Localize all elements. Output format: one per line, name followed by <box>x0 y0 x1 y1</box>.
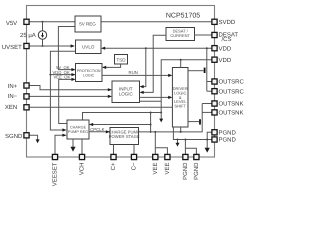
pin OUTSNK 2 <box>212 110 217 115</box>
svg-text:/CS: /CS <box>222 36 232 43</box>
IC outline NCP51705 <box>27 6 215 158</box>
svg-text:PROTECTION: PROTECTION <box>77 69 101 73</box>
pin VDD 1 <box>212 46 217 51</box>
svg-text:VEESET: VEESET <box>52 162 59 186</box>
svg-text:LOGIC: LOGIC <box>83 74 95 78</box>
PGND pins bracket <box>185 148 196 154</box>
pin OUTSNK 1 <box>212 101 217 106</box>
svg-text:OUTSRC: OUTSRC <box>219 88 245 95</box>
svg-text:RUN: RUN <box>129 70 138 75</box>
pin OUTSRC 2 <box>212 89 217 94</box>
pin UVSET <box>24 43 29 48</box>
svg-text:C−: C− <box>131 162 138 170</box>
wire VEESET up to charge pump reg <box>55 135 65 154</box>
svg-text:LOGIC: LOGIC <box>119 91 134 96</box>
transistor Q1 PMOS source follower <box>188 66 207 92</box>
block DESAT / CURRENT <box>166 28 195 41</box>
current source 25uA <box>38 22 46 46</box>
wire VDD rail left to charge pump reg top <box>83 113 162 121</box>
PGND rail down arrow <box>177 140 179 144</box>
pin VCH <box>79 154 84 159</box>
wire OUTSNK pin2 stub <box>202 111 212 113</box>
svg-text:PGND: PGND <box>219 130 237 137</box>
pin IN- <box>24 94 29 99</box>
wire SGND arrow <box>29 135 38 140</box>
pin V5V <box>24 19 29 24</box>
svg-text:25 µA: 25 µA <box>20 32 36 39</box>
wire UVSET to UVLO <box>29 45 74 47</box>
wire OUTSRC pin2 stub <box>207 90 212 92</box>
svg-text:SGND: SGND <box>5 133 23 140</box>
svg-text:VDD: VDD <box>219 57 232 64</box>
wire XEN to driver <box>29 106 172 108</box>
wire branch down to charge pump reg right input and VEE rail <box>150 113 152 132</box>
block DRIVER LOGIC & LEVEL SHIFT <box>172 68 188 128</box>
VDD bus vertical to PMOS <box>206 48 208 65</box>
pin PGND bottom 1 <box>183 154 188 159</box>
svg-text:OUTSNK: OUTSNK <box>219 101 244 108</box>
svg-text:PUMP REG: PUMP REG <box>68 130 88 134</box>
svg-text:OUTSNK: OUTSNK <box>219 110 244 117</box>
svg-text:VCH: VCH <box>79 163 86 176</box>
pin IN+ <box>24 83 29 88</box>
wire VDD into driver top <box>180 60 182 68</box>
block INPUT LOGIC <box>112 81 140 103</box>
wire C+ stub <box>113 145 115 155</box>
node junction current source top <box>42 21 44 23</box>
svg-text:C+: C+ <box>110 162 117 170</box>
svg-text:VDD: VDD <box>219 45 232 52</box>
wire DESAT output down to input logic <box>141 35 166 92</box>
wire VEE rail down to VEE pins bracket <box>154 132 156 155</box>
block CHARGE PUMP POWER STAGE <box>110 128 139 145</box>
svg-text:PGND: PGND <box>193 162 200 180</box>
wire 5V REG to SVDD <box>101 21 212 23</box>
pin VEE 1 <box>153 154 158 159</box>
wire CPCLK charge pump reg to power stage <box>89 131 109 133</box>
svg-text:VEE: VEE <box>164 163 171 175</box>
svg-text:SHIFT: SHIFT <box>174 104 186 109</box>
svg-text:POWER STAGE: POWER STAGE <box>109 134 140 139</box>
svg-text:CPCLK: CPCLK <box>90 127 104 132</box>
block CHARGE PUMP REG <box>67 120 89 139</box>
pin PGND right 2 <box>212 137 217 142</box>
wire W1 UVLO left down to charge pump reg input1 <box>50 51 75 130</box>
wire driver bottom to VEE rail <box>180 127 182 132</box>
svg-text:IN−: IN− <box>8 93 18 100</box>
pin XEN <box>24 105 29 110</box>
arrow to VEE below node <box>160 113 162 120</box>
svg-text:OUTSRC: OUTSRC <box>219 79 245 86</box>
svg-text:UVSET: UVSET <box>2 44 22 51</box>
wire OUTSRC pin1 stub <box>207 81 212 83</box>
pin PGND right 1 <box>212 130 217 135</box>
svg-text:UVLO: UVLO <box>82 44 95 49</box>
wire OUTSNK bus <box>201 104 203 127</box>
VEE pins bracket <box>155 148 167 155</box>
svg-text:TSD: TSD <box>117 57 127 62</box>
svg-text:V5V: V5V <box>6 20 17 27</box>
wire V5V to 5V REG <box>29 21 75 23</box>
node junction current source bottom <box>42 45 44 47</box>
pin SGND <box>24 133 29 138</box>
transistor Q2 NMOS sink <box>188 119 201 124</box>
wire IN+ to input logic <box>29 86 111 90</box>
wire PGND pin1 stub down to solid arrow <box>207 132 212 148</box>
svg-text:PGND: PGND <box>219 137 237 144</box>
wire RUN protection to driver <box>102 74 171 76</box>
wire IN- to input logic <box>29 95 111 97</box>
svg-text:CURRENT: CURRENT <box>170 33 190 38</box>
block PROTECTION LOGIC <box>76 64 103 82</box>
wire VDD pin1 to UVLO <box>103 47 212 49</box>
wire C- stub <box>133 145 135 155</box>
wire TSD to protection logic <box>103 64 120 67</box>
svg-text:XEN: XEN <box>5 104 17 111</box>
svg-text:SVDD: SVDD <box>219 19 236 26</box>
wire W3 VEE_OK down to charge pump reg top input <box>59 79 74 123</box>
wire input logic out1 to driver <box>140 96 171 98</box>
block 5V REG <box>75 16 101 32</box>
svg-text:NCP51705: NCP51705 <box>166 12 200 19</box>
svg-text:VEE_OK: VEE_OK <box>54 75 71 80</box>
pin OUTSRC 1 <box>212 79 217 84</box>
wire DESAT/CS pin <box>194 34 212 36</box>
pin VEESET <box>52 154 57 159</box>
svg-text:IN+: IN+ <box>8 83 18 90</box>
wire input logic out2 to VDD branch node <box>140 100 162 102</box>
svg-text:PGND: PGND <box>182 162 189 180</box>
wire W2 5V REG left down to 5V_OK <box>58 27 75 70</box>
wire PGND rail to driver bottom <box>173 127 212 140</box>
wire VCH pin up to charge pump reg <box>81 139 83 154</box>
charge pump reg down arrow to VEE <box>72 139 74 147</box>
wire VDD pin2 rail <box>161 60 212 113</box>
pin PGND bottom 2 <box>194 154 199 159</box>
block TSD <box>115 55 128 65</box>
pin VEE 2 <box>165 154 170 159</box>
pin DESAT/CS <box>212 32 217 37</box>
wire OUTSNK pin1 stub <box>202 103 212 105</box>
svg-text:VEE: VEE <box>152 163 159 175</box>
wire PGND rail to bottom PGND pins <box>184 140 186 155</box>
pin C+ <box>111 154 116 159</box>
pin C- <box>131 154 136 159</box>
svg-text:5V REG: 5V REG <box>79 21 96 26</box>
wire VDD_OK from W1 <box>50 74 74 76</box>
wire VEE rail from power stage to NMOS source <box>139 127 203 132</box>
pin SVDD <box>212 19 217 24</box>
block UVLO <box>76 40 102 54</box>
pin VDD 2 <box>212 57 217 62</box>
wire branch down to input logic arrow1 <box>141 48 146 86</box>
